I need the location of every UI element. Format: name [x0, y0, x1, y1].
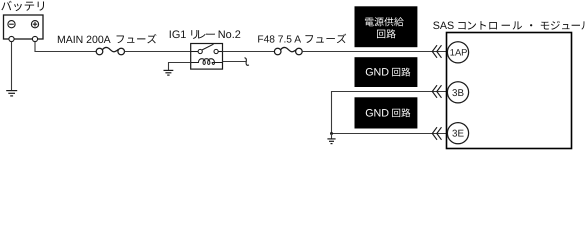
junction dot — [330, 132, 333, 135]
wire GND circuit to module pin 3B — [332, 92, 447, 134]
battery B1 — [4, 15, 44, 42]
svg-text:No.2: No.2 — [218, 29, 241, 41]
module pin 3B — [447, 82, 468, 103]
battery label バッテリ — [1, 1, 44, 11]
ground relay — [164, 70, 174, 75]
connector chevron to pin 3E — [432, 127, 441, 140]
wire relay coil to other circuit — [223, 61, 246, 63]
wire battery positive to MAIN fuse — [35, 42, 96, 52]
svg-text:1AP: 1AP — [450, 48, 468, 58]
wire MAIN fuse to relay — [125, 51, 191, 53]
relay coil — [191, 59, 223, 65]
svg-text:SAS: SAS — [433, 20, 454, 32]
relay K1 IG1 No.2 box — [191, 44, 223, 70]
wire F48 fuse to module pin 1AP — [302, 51, 446, 53]
svg-text:F48 7.5 A: F48 7.5 A — [257, 35, 301, 46]
wire battery negative to ground — [11, 42, 13, 91]
svg-text:3B: 3B — [452, 88, 464, 99]
net box GND 回路 lower — [355, 97, 418, 128]
label 電源供給回路 — [365, 17, 404, 26]
svg-text:GND: GND — [365, 67, 389, 79]
svg-text:MAIN 200A: MAIN 200A — [57, 34, 111, 46]
fuse MAIN 200A — [96, 48, 124, 55]
connector chevron to pin 1AP — [432, 45, 441, 58]
ground battery — [6, 91, 17, 96]
ground GND net — [327, 139, 335, 144]
fuse F48 7.5A — [274, 48, 302, 55]
wire to module pin 3E — [332, 133, 447, 135]
svg-text:IG1: IG1 — [169, 29, 187, 41]
svg-text:GND: GND — [365, 107, 389, 119]
continuation squiggle — [245, 58, 249, 66]
net box GND 回路 upper — [355, 57, 418, 87]
SAS control module box U1 — [447, 33, 572, 149]
svg-text:3E: 3E — [452, 129, 464, 140]
wire relay coil to ground — [169, 63, 191, 71]
net box 電源供給回路 power supply circuit — [355, 6, 418, 47]
wire relay to F48 fuse — [223, 51, 275, 53]
module pin 3E — [447, 123, 468, 144]
connector chevron to pin 3B — [432, 85, 441, 98]
wire junction to ground — [331, 134, 333, 139]
module pin 1AP — [447, 42, 468, 63]
relay switch contact — [191, 44, 223, 53]
